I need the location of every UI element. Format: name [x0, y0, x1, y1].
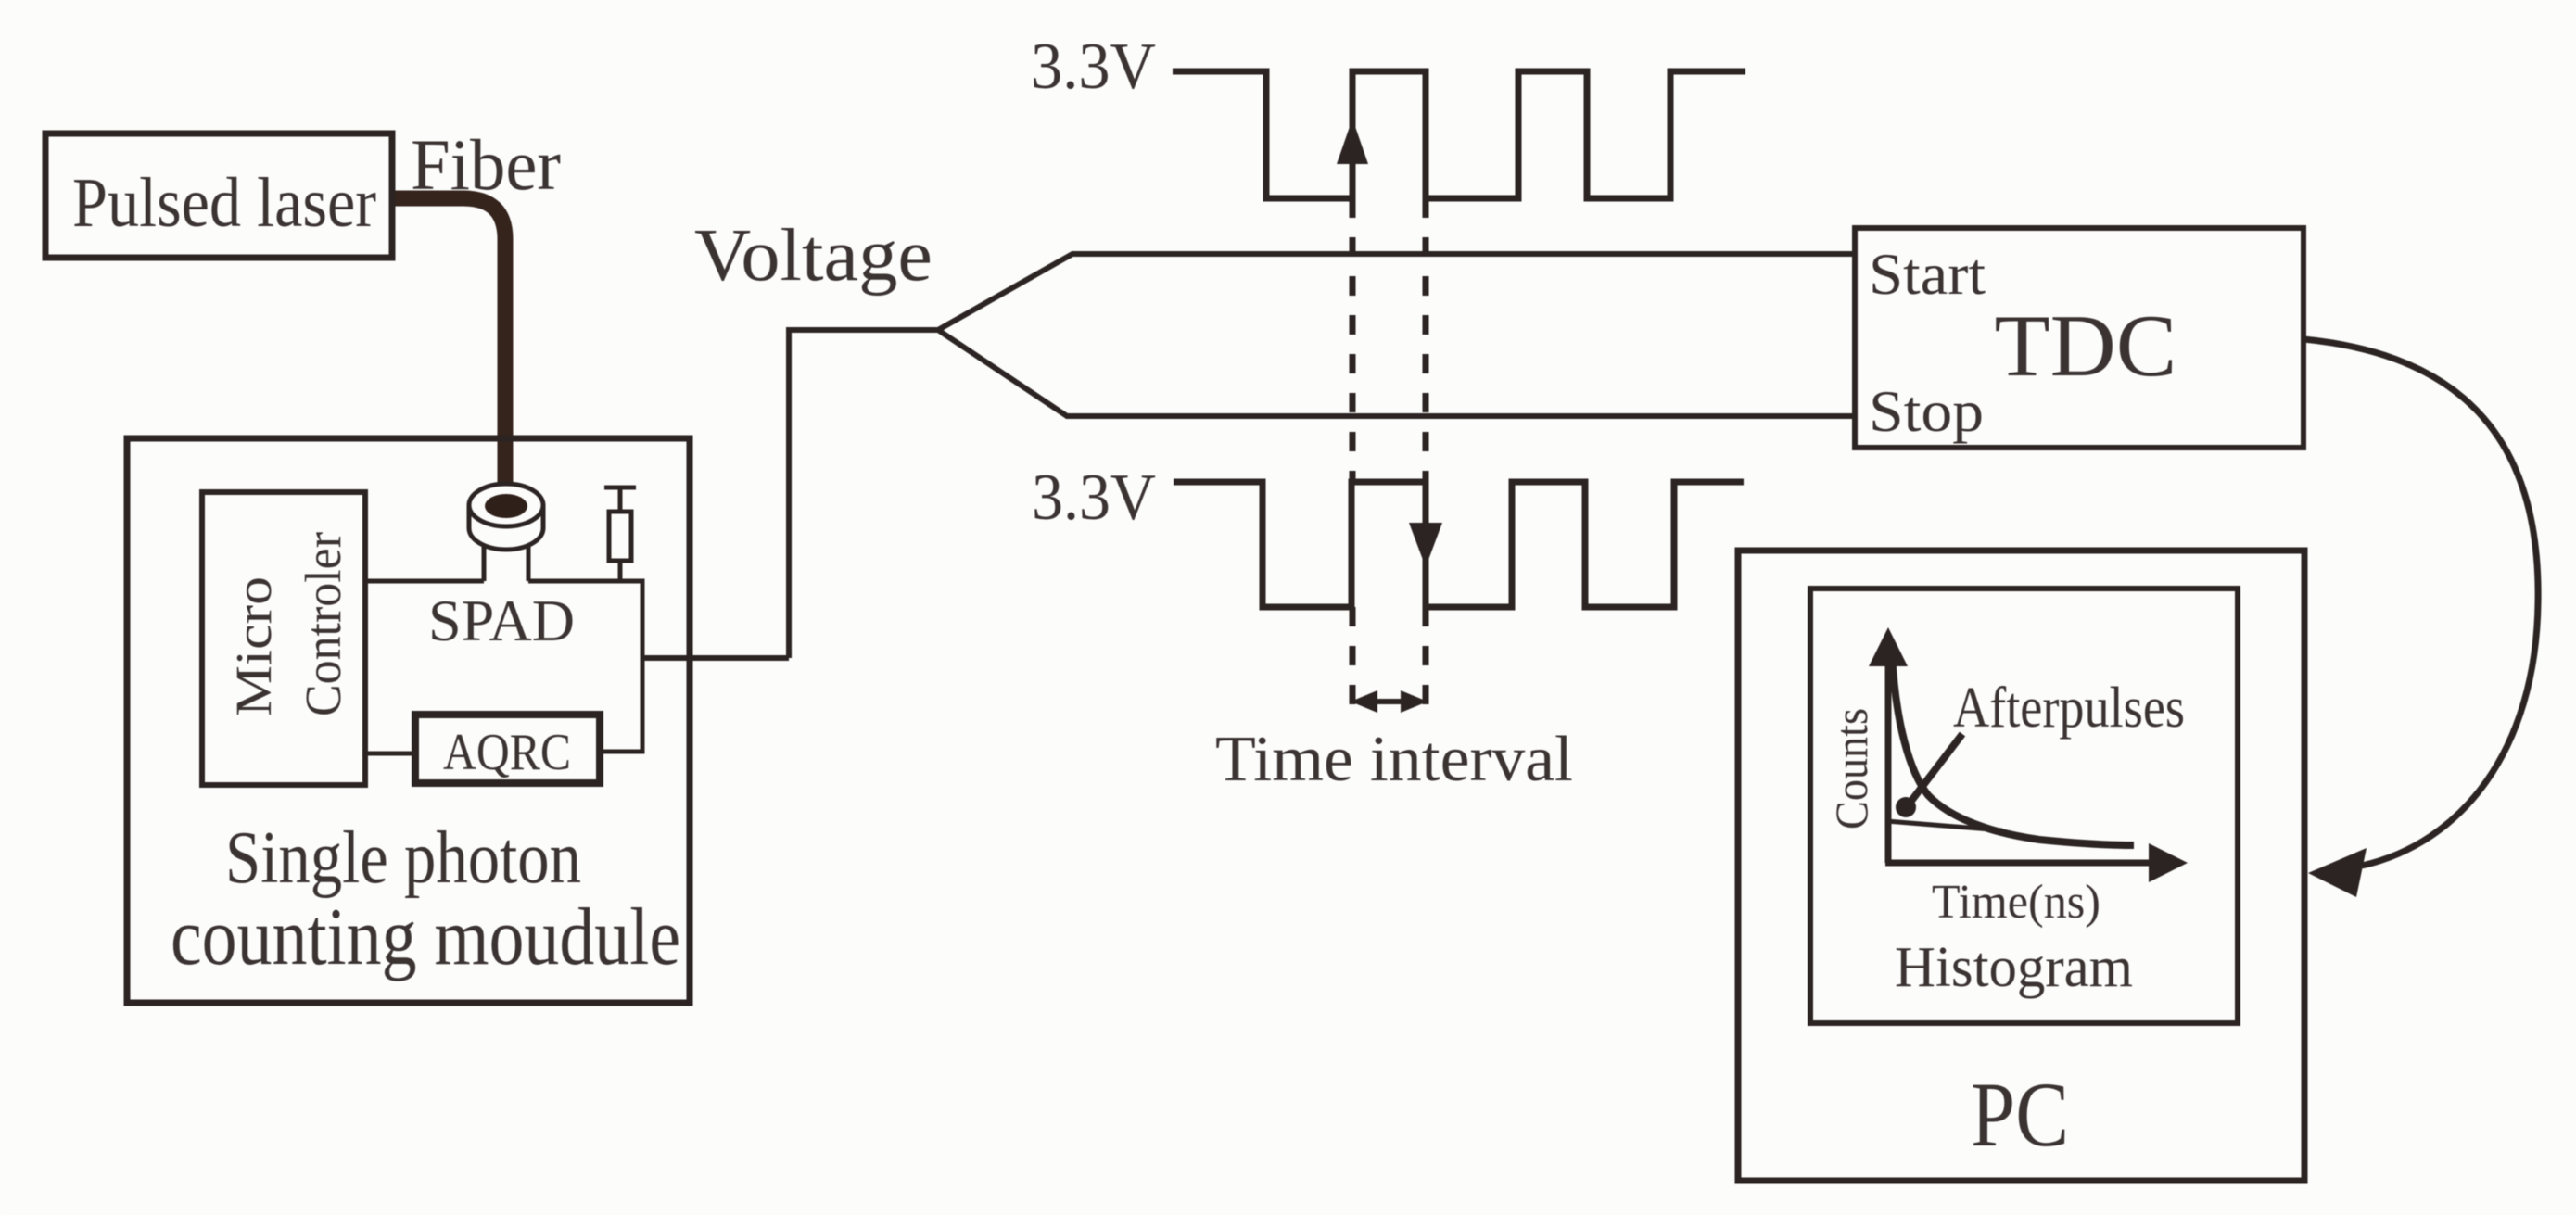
- svg-text:Pulsed laser: Pulsed laser: [72, 164, 376, 242]
- svg-text:Micro: Micro: [225, 576, 282, 716]
- svg-text:TDC: TDC: [1995, 297, 2177, 395]
- svg-text:Single photon: Single photon: [225, 817, 581, 899]
- svg-text:Controler: Controler: [295, 532, 351, 716]
- svg-text:Counts: Counts: [1825, 708, 1877, 829]
- svg-text:PC: PC: [1971, 1063, 2069, 1166]
- svg-text:SPAD: SPAD: [428, 589, 575, 653]
- svg-text:counting moudule: counting moudule: [171, 892, 680, 982]
- svg-text:Stop: Stop: [1869, 378, 1984, 444]
- svg-text:Voltage: Voltage: [694, 215, 933, 297]
- svg-text:Afterpulses: Afterpulses: [1953, 677, 2185, 740]
- svg-text:Fiber: Fiber: [411, 124, 561, 205]
- svg-text:3.3V: 3.3V: [1031, 31, 1156, 103]
- svg-text:3.3V: 3.3V: [1032, 462, 1156, 534]
- svg-text:Time interval: Time interval: [1215, 724, 1573, 795]
- svg-text:Histogram: Histogram: [1895, 936, 2133, 999]
- svg-text:Start: Start: [1869, 241, 1986, 307]
- svg-text:AQRC: AQRC: [443, 724, 571, 781]
- svg-text:Time(ns): Time(ns): [1932, 876, 2100, 929]
